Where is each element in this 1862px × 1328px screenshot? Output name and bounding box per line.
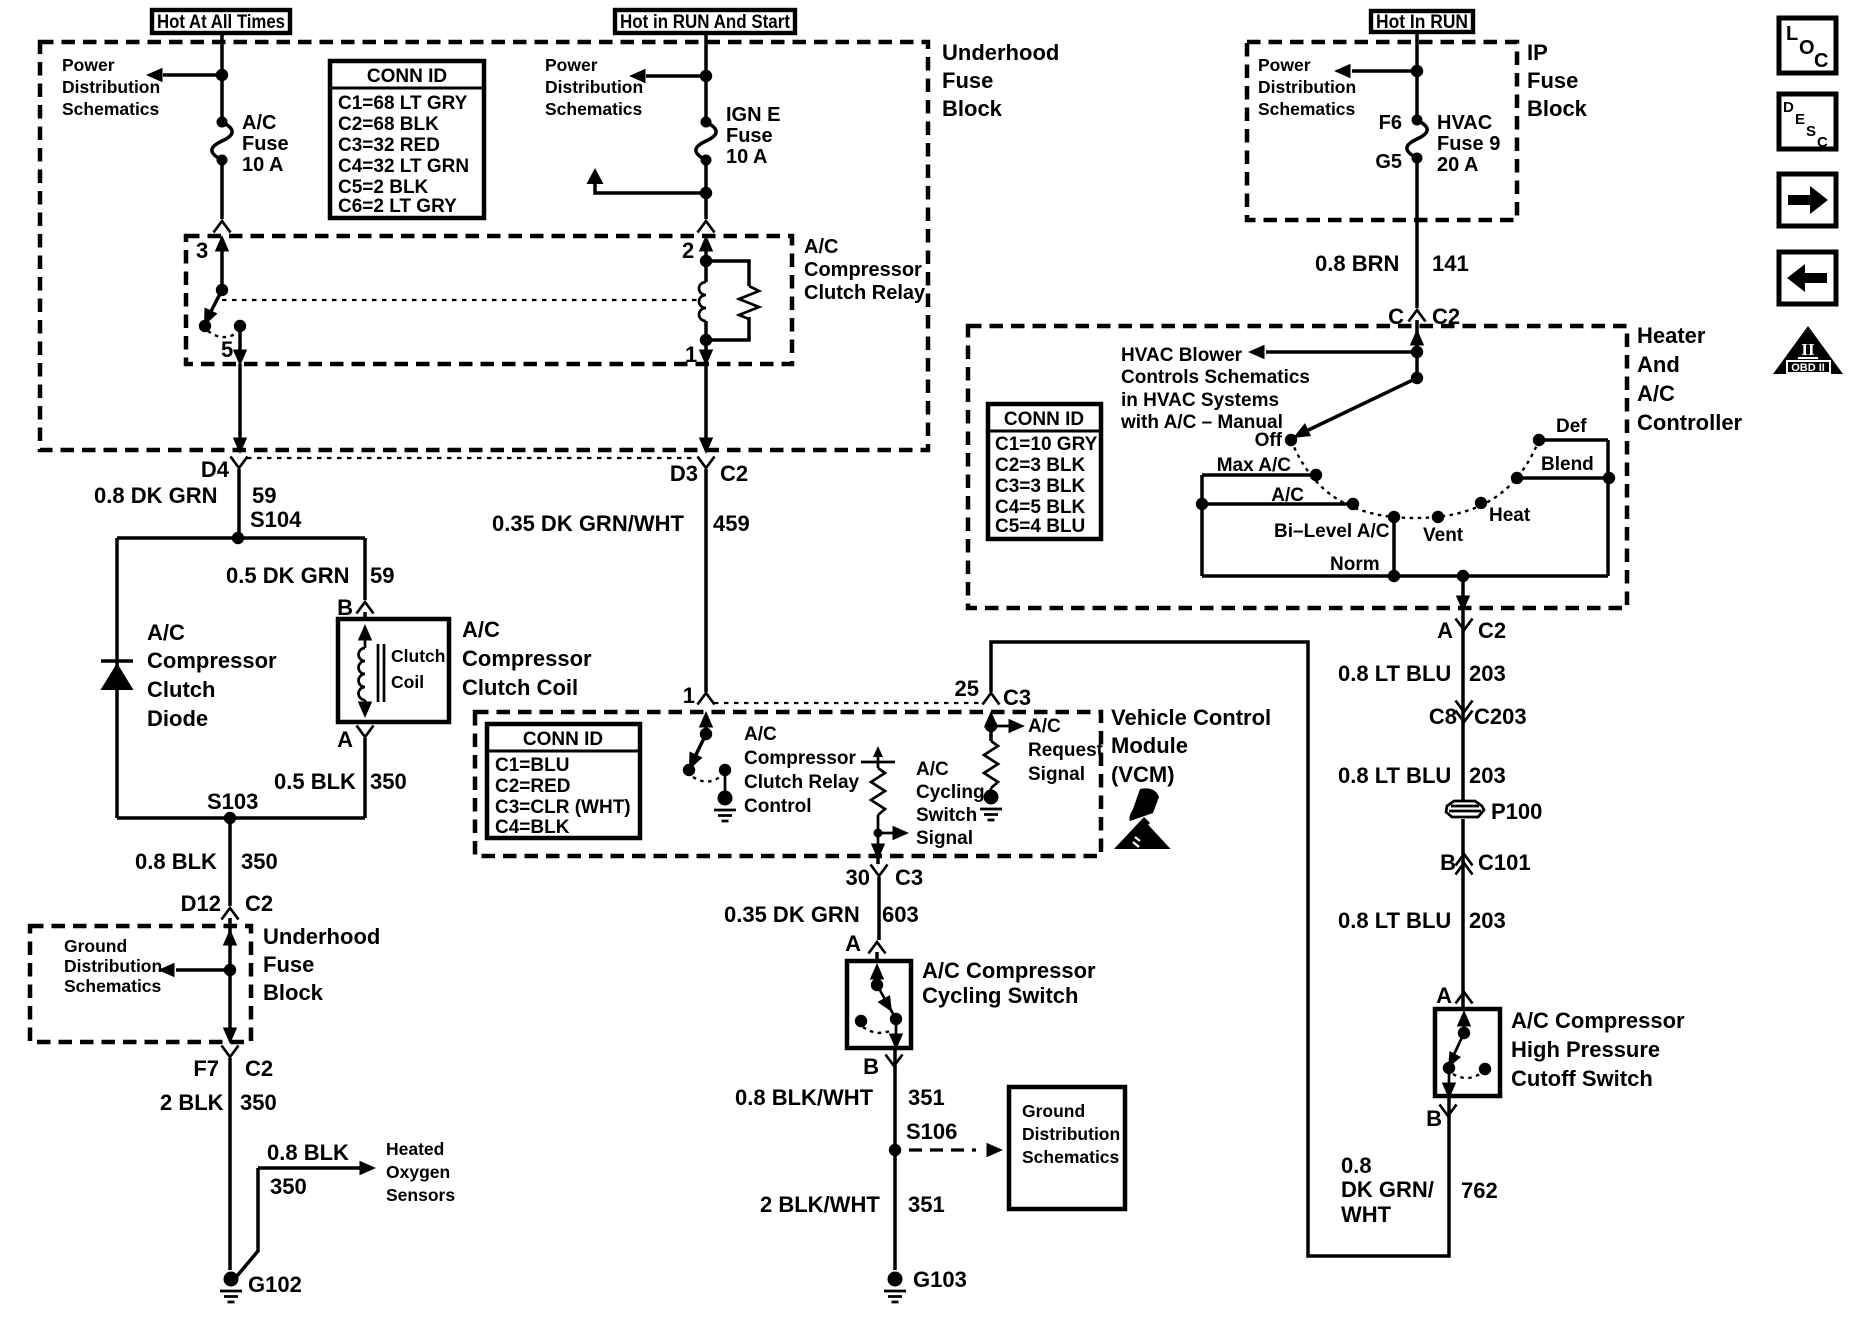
svg-text:C8: C8 [1429, 704, 1457, 729]
svg-text:D4: D4 [201, 457, 230, 482]
svg-text:Heater: Heater [1637, 323, 1706, 348]
svg-text:Distribution: Distribution [1258, 77, 1356, 97]
svg-text:350: 350 [240, 1090, 277, 1115]
svg-text:Norm: Norm [1330, 554, 1380, 575]
svg-text:II: II [1801, 340, 1815, 359]
svg-text:F6: F6 [1379, 112, 1402, 134]
svg-text:0.8 LT BLU: 0.8 LT BLU [1338, 908, 1451, 933]
svg-text:141: 141 [1432, 251, 1469, 276]
svg-text:Fuse: Fuse [726, 125, 773, 147]
svg-text:WHT: WHT [1341, 1202, 1392, 1227]
svg-text:1: 1 [683, 683, 695, 708]
svg-text:C: C [1814, 50, 1828, 72]
svg-text:Block: Block [942, 96, 1003, 121]
svg-text:C2: C2 [245, 891, 273, 916]
svg-text:Fuse: Fuse [942, 68, 993, 93]
svg-text:0.35 DK GRN: 0.35 DK GRN [724, 902, 860, 927]
svg-text:in HVAC Systems: in HVAC Systems [1121, 390, 1279, 411]
svg-text:Def: Def [1556, 416, 1587, 437]
svg-text:A/C: A/C [462, 617, 500, 642]
svg-text:0.8 LT BLU: 0.8 LT BLU [1338, 763, 1451, 788]
svg-text:Block: Block [1527, 96, 1588, 121]
svg-text:0.8 BLK: 0.8 BLK [267, 1140, 349, 1165]
svg-text:Schematics: Schematics [64, 976, 162, 996]
svg-text:Controller: Controller [1637, 410, 1743, 435]
svg-text:C2: C2 [1478, 618, 1506, 643]
svg-text:Clutch Relay: Clutch Relay [744, 772, 860, 793]
svg-text:C1=68 LT GRY: C1=68 LT GRY [338, 93, 468, 114]
svg-text:High Pressure: High Pressure [1511, 1037, 1660, 1062]
svg-text:59: 59 [370, 563, 394, 588]
svg-text:459: 459 [713, 511, 750, 536]
svg-text:350: 350 [370, 769, 407, 794]
svg-text:A: A [1436, 983, 1452, 1008]
svg-text:Schematics: Schematics [545, 99, 643, 119]
svg-text:B: B [1426, 1106, 1442, 1131]
svg-text:HVAC Blower: HVAC Blower [1121, 345, 1243, 366]
svg-text:0.8 BRN: 0.8 BRN [1315, 251, 1399, 276]
svg-text:C101: C101 [1478, 850, 1531, 875]
svg-text:C2: C2 [720, 461, 748, 486]
svg-text:CONN ID: CONN ID [367, 66, 447, 87]
svg-text:Clutch Relay: Clutch Relay [804, 282, 926, 304]
svg-text:C203: C203 [1474, 704, 1527, 729]
svg-text:Module: Module [1111, 733, 1188, 758]
svg-text:C4=BLK: C4=BLK [495, 817, 570, 838]
svg-text:C1=BLU: C1=BLU [495, 755, 569, 776]
svg-text:O: O [1799, 37, 1815, 59]
svg-text:603: 603 [882, 902, 919, 927]
svg-text:Clutch Coil: Clutch Coil [462, 675, 578, 700]
svg-text:P100: P100 [1491, 799, 1542, 824]
svg-text:10 A: 10 A [726, 146, 768, 168]
svg-text:Sensors: Sensors [386, 1185, 455, 1205]
svg-text:Cycling: Cycling [916, 782, 985, 803]
svg-text:5: 5 [221, 337, 233, 362]
svg-text:C2: C2 [1432, 304, 1460, 329]
svg-text:A: A [1437, 618, 1453, 643]
svg-text:A/C: A/C [147, 620, 185, 645]
svg-text:Fuse: Fuse [263, 952, 314, 977]
svg-text:C3: C3 [895, 865, 923, 890]
svg-text:C3=3 BLK: C3=3 BLK [995, 476, 1086, 497]
svg-text:C2=3 BLK: C2=3 BLK [995, 455, 1086, 476]
svg-text:0.8 BLK/WHT: 0.8 BLK/WHT [735, 1085, 874, 1110]
svg-text:Blend: Blend [1541, 454, 1594, 475]
svg-text:203: 203 [1469, 908, 1506, 933]
svg-text:Hot in RUN And Start: Hot in RUN And Start [620, 12, 791, 33]
svg-text:0.8: 0.8 [1341, 1153, 1372, 1178]
svg-text:OBD II: OBD II [1791, 362, 1825, 374]
svg-text:CONN ID: CONN ID [523, 729, 603, 750]
svg-text:Power: Power [545, 55, 598, 75]
svg-text:F7: F7 [193, 1056, 219, 1081]
svg-text:D3: D3 [670, 461, 698, 486]
svg-text:S103: S103 [207, 789, 258, 814]
svg-text:C: C [1388, 304, 1404, 329]
svg-text:DK GRN/: DK GRN/ [1341, 1177, 1434, 1202]
svg-text:Bi–Level A/C: Bi–Level A/C [1274, 521, 1390, 542]
svg-text:Schematics: Schematics [1258, 99, 1356, 119]
svg-text:203: 203 [1469, 763, 1506, 788]
svg-text:10 A: 10 A [242, 154, 284, 176]
svg-text:C2: C2 [245, 1056, 273, 1081]
svg-text:2 BLK: 2 BLK [160, 1090, 224, 1115]
svg-text:Clutch: Clutch [391, 646, 445, 666]
svg-text:G102: G102 [248, 1272, 302, 1297]
svg-text:Hot At All Times: Hot At All Times [157, 12, 285, 33]
svg-text:A: A [845, 931, 861, 956]
svg-text:A/C: A/C [916, 759, 949, 780]
svg-text:1: 1 [685, 342, 697, 367]
svg-text:Off: Off [1255, 430, 1283, 451]
svg-text:0.5 DK GRN: 0.5 DK GRN [226, 563, 349, 588]
svg-text:S104: S104 [250, 507, 302, 532]
svg-text:0.8 BLK: 0.8 BLK [135, 849, 217, 874]
svg-text:2 BLK/WHT: 2 BLK/WHT [760, 1192, 880, 1217]
svg-text:Request: Request [1028, 740, 1104, 761]
svg-text:A/C: A/C [744, 724, 777, 745]
svg-text:And: And [1637, 352, 1680, 377]
svg-text:Cycling Switch: Cycling Switch [922, 983, 1078, 1008]
svg-text:C3=CLR (WHT): C3=CLR (WHT) [495, 797, 631, 818]
svg-text:Coil: Coil [391, 672, 424, 692]
svg-text:IGN E: IGN E [726, 104, 780, 126]
svg-text:Fuse: Fuse [242, 133, 289, 155]
svg-text:Switch: Switch [916, 805, 977, 826]
svg-text:30: 30 [846, 865, 870, 890]
svg-text:C5=2 BLK: C5=2 BLK [338, 177, 429, 198]
svg-text:C2=68 BLK: C2=68 BLK [338, 114, 439, 135]
svg-text:Heat: Heat [1489, 505, 1531, 526]
svg-text:Compressor: Compressor [462, 646, 592, 671]
svg-text:20 A: 20 A [1437, 154, 1479, 176]
svg-text:0.35 DK GRN/WHT: 0.35 DK GRN/WHT [492, 511, 684, 536]
svg-text:G103: G103 [913, 1267, 967, 1292]
svg-text:Vent: Vent [1423, 525, 1464, 546]
svg-text:Oxygen: Oxygen [386, 1162, 450, 1182]
svg-text:CONN ID: CONN ID [1004, 409, 1084, 430]
svg-text:Underhood: Underhood [942, 40, 1059, 65]
svg-text:Underhood: Underhood [263, 924, 380, 949]
svg-text:762: 762 [1461, 1178, 1498, 1203]
svg-text:B: B [863, 1054, 879, 1079]
svg-text:Compressor: Compressor [804, 259, 922, 281]
svg-text:C: C [1817, 134, 1828, 151]
svg-text:D: D [1783, 99, 1794, 116]
svg-text:G5: G5 [1375, 151, 1402, 173]
svg-text:Schematics: Schematics [62, 99, 160, 119]
svg-text:Signal: Signal [1028, 764, 1085, 785]
svg-text:A/C: A/C [1637, 381, 1675, 406]
svg-text:Control: Control [744, 796, 812, 817]
svg-text:Compressor: Compressor [147, 648, 277, 673]
svg-text:B: B [1440, 850, 1456, 875]
svg-text:Distribution: Distribution [62, 77, 160, 97]
svg-text:Block: Block [263, 980, 324, 1005]
svg-text:S: S [1806, 123, 1816, 140]
svg-text:350: 350 [270, 1174, 307, 1199]
svg-text:S106: S106 [906, 1119, 957, 1144]
svg-text:Ground: Ground [64, 936, 127, 956]
svg-text:0.8 LT BLU: 0.8 LT BLU [1338, 661, 1451, 686]
svg-text:C6=2 LT GRY: C6=2 LT GRY [338, 196, 457, 217]
svg-text:C4=5 BLK: C4=5 BLK [995, 497, 1086, 518]
svg-text:C3=32 RED: C3=32 RED [338, 135, 440, 156]
svg-text:Distribution: Distribution [64, 956, 162, 976]
svg-text:A/C: A/C [1271, 485, 1304, 506]
svg-text:C4=32 LT GRN: C4=32 LT GRN [338, 156, 469, 177]
svg-text:Clutch: Clutch [147, 677, 215, 702]
svg-text:350: 350 [241, 849, 278, 874]
svg-text:A/C: A/C [1028, 716, 1061, 737]
svg-text:Fuse: Fuse [1527, 68, 1578, 93]
svg-text:Heated: Heated [386, 1139, 444, 1159]
svg-text:HVAC: HVAC [1437, 112, 1492, 134]
svg-text:2: 2 [682, 238, 694, 263]
svg-text:B: B [337, 595, 353, 620]
svg-text:A/C Compressor: A/C Compressor [922, 958, 1096, 983]
svg-text:(VCM): (VCM) [1111, 762, 1175, 787]
svg-text:Cutoff Switch: Cutoff Switch [1511, 1066, 1653, 1091]
svg-text:203: 203 [1469, 661, 1506, 686]
svg-text:Distribution: Distribution [1022, 1124, 1120, 1144]
svg-text:C3: C3 [1003, 685, 1031, 710]
svg-text:A/C: A/C [804, 236, 838, 258]
svg-text:Power: Power [1258, 55, 1311, 75]
svg-text:L: L [1786, 23, 1798, 45]
svg-text:Distribution: Distribution [545, 77, 643, 97]
svg-text:C1=10 GRY: C1=10 GRY [995, 434, 1098, 455]
svg-text:Ground: Ground [1022, 1101, 1085, 1121]
svg-text:Diode: Diode [147, 706, 208, 731]
svg-text:Controls Schematics: Controls Schematics [1121, 367, 1310, 388]
svg-text:Max A/C: Max A/C [1217, 455, 1292, 476]
svg-text:59: 59 [252, 483, 276, 508]
svg-text:Power: Power [62, 55, 115, 75]
svg-text:0.5 BLK: 0.5 BLK [274, 769, 356, 794]
svg-text:C2=RED: C2=RED [495, 776, 571, 797]
svg-text:E: E [1795, 111, 1805, 128]
svg-text:351: 351 [908, 1192, 945, 1217]
svg-text:D12: D12 [181, 891, 221, 916]
svg-text:A/C Compressor: A/C Compressor [1511, 1008, 1685, 1033]
svg-text:25: 25 [955, 676, 979, 701]
svg-text:Signal: Signal [916, 828, 973, 849]
svg-text:IP: IP [1527, 40, 1548, 65]
svg-text:Hot In RUN: Hot In RUN [1376, 12, 1468, 33]
svg-text:Vehicle Control: Vehicle Control [1111, 705, 1271, 730]
svg-text:3: 3 [196, 238, 208, 263]
svg-text:Fuse 9: Fuse 9 [1437, 133, 1500, 155]
svg-text:Compressor: Compressor [744, 748, 857, 769]
svg-text:A/C: A/C [242, 112, 276, 134]
svg-text:0.8 DK GRN: 0.8 DK GRN [94, 483, 217, 508]
svg-text:351: 351 [908, 1085, 945, 1110]
svg-text:A: A [337, 727, 353, 752]
svg-text:Schematics: Schematics [1022, 1147, 1120, 1167]
svg-text:C5=4 BLU: C5=4 BLU [995, 516, 1085, 537]
